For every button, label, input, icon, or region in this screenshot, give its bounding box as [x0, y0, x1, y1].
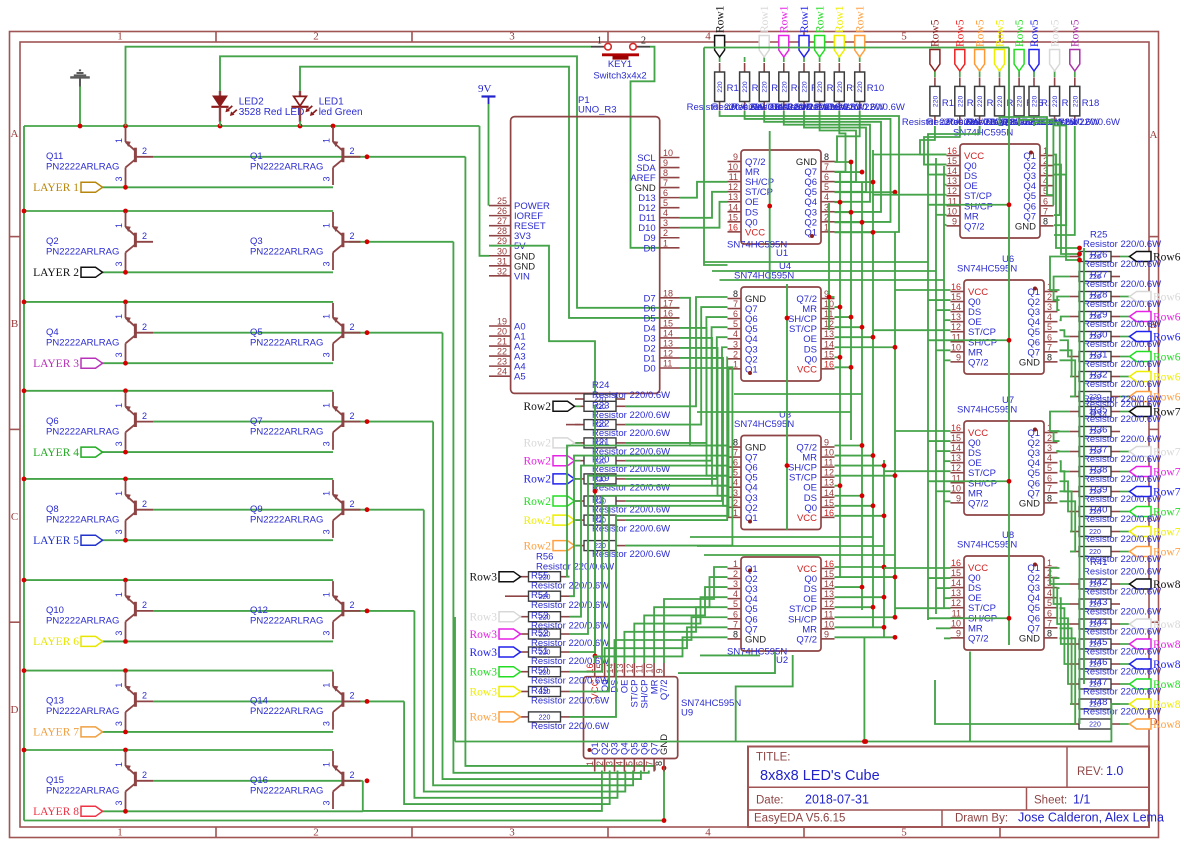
- svg-text:2: 2: [350, 146, 355, 156]
- svg-text:Resistor 220/0.6W: Resistor 220/0.6W: [1083, 494, 1161, 505]
- svg-text:9: 9: [663, 158, 668, 168]
- svg-text:8: 8: [1047, 628, 1052, 638]
- resistor R9: [834, 63, 844, 111]
- svg-text:3: 3: [733, 339, 738, 349]
- wire base row 2: [349, 241, 453, 243]
- svg-text:2: 2: [142, 600, 147, 610]
- wire LED2 net: [220, 56, 680, 307]
- svg-text:LAYER 6: LAYER 6: [33, 636, 79, 648]
- net flag Row2 (R19): [575, 478, 581, 480]
- bus row U3-U2: [690, 536, 873, 538]
- net flag Row3 (R52): [470, 629, 521, 641]
- svg-text:13: 13: [728, 192, 738, 202]
- svg-text:2: 2: [142, 322, 147, 332]
- svg-text:14: 14: [824, 579, 834, 589]
- svg-text:5: 5: [625, 761, 635, 766]
- svg-text:3: 3: [322, 721, 332, 726]
- resistor R37: [1070, 467, 1120, 477]
- svg-text:R1: R1: [727, 83, 739, 94]
- svg-text:SN74HC595N: SN74HC595N: [734, 419, 794, 430]
- svg-text:220: 220: [762, 81, 769, 93]
- svg-text:1: 1: [322, 403, 332, 408]
- wire base row 6: [153, 610, 414, 612]
- svg-text:9: 9: [655, 668, 665, 673]
- wire base1 to U9 pin: [465, 157, 655, 771]
- svg-text:2: 2: [350, 322, 355, 332]
- wires U4 outputs to channel: [829, 296, 835, 298]
- svg-text:3: 3: [114, 261, 124, 266]
- node rail1 junctions: [123, 124, 128, 129]
- net flag Row7: [1120, 471, 1130, 473]
- net flag Row6: [1120, 256, 1130, 258]
- svg-text:2: 2: [142, 499, 147, 509]
- svg-text:9: 9: [956, 493, 961, 503]
- svg-text:Q11: Q11: [46, 151, 63, 162]
- svg-text:10: 10: [951, 618, 961, 628]
- ground: [70, 70, 90, 86]
- resistor R13: [975, 77, 985, 125]
- net flag Row1 (R10): [859, 57, 861, 62]
- svg-text:7: 7: [663, 178, 668, 188]
- svg-text:2: 2: [733, 349, 738, 359]
- wire base row 7: [153, 700, 404, 702]
- net flag Row8: [1120, 683, 1130, 685]
- wire layer emitter 1: [100, 186, 333, 188]
- svg-text:12: 12: [947, 186, 957, 196]
- svg-text:1: 1: [585, 761, 595, 766]
- net flag Row7: [1120, 531, 1130, 533]
- svg-text:4: 4: [733, 329, 738, 339]
- svg-text:15: 15: [728, 212, 738, 222]
- svg-text:4: 4: [733, 589, 738, 599]
- svg-text:Q9: Q9: [250, 504, 263, 515]
- power flag 9V: [478, 83, 496, 104]
- svg-text:C: C: [11, 511, 18, 523]
- svg-text:14: 14: [824, 488, 834, 498]
- transistor Q15: [46, 751, 153, 809]
- net flag Row8: [1120, 623, 1130, 625]
- svg-text:11: 11: [824, 609, 833, 619]
- resistor R25: [1070, 252, 1120, 262]
- wire vertical through U4 and U3: [786, 284, 788, 530]
- svg-text:LAYER 8: LAYER 8: [33, 806, 79, 818]
- title block: [748, 747, 1164, 828]
- svg-text:Row2: Row2: [524, 515, 552, 527]
- shift register U8: [951, 530, 1058, 650]
- svg-text:12: 12: [824, 599, 834, 609]
- svg-text:7: 7: [1043, 206, 1048, 216]
- svg-text:12: 12: [728, 182, 738, 192]
- svg-text:4: 4: [705, 31, 711, 43]
- wire base row 3: [153, 332, 443, 334]
- svg-text:LED1: LED1: [319, 97, 344, 108]
- svg-text:1: 1: [114, 683, 124, 688]
- svg-text:3: 3: [322, 261, 332, 266]
- svg-text:Resistor 220/0.6W: Resistor 220/0.6W: [1083, 359, 1161, 370]
- resistor R12: [955, 77, 965, 125]
- net flag Row6: [1120, 376, 1130, 378]
- net flag Row5 (R16): [1033, 71, 1035, 77]
- svg-text:14: 14: [663, 328, 673, 338]
- svg-text:12: 12: [951, 598, 961, 608]
- svg-text:Resistor 220/0.6W: Resistor 220/0.6W: [1083, 534, 1161, 545]
- svg-text:2: 2: [595, 761, 605, 766]
- svg-text:3: 3: [733, 579, 738, 589]
- svg-text:PN2222ARLRAG: PN2222ARLRAG: [250, 426, 323, 437]
- resistor R2x: [575, 541, 625, 551]
- svg-text:10: 10: [824, 619, 834, 629]
- svg-text:6: 6: [1047, 608, 1052, 618]
- resistor R29: [1070, 332, 1120, 342]
- svg-text:D0: D0: [644, 364, 656, 375]
- net flag Row1 (R9): [838, 57, 840, 62]
- svg-text:GND: GND: [659, 734, 670, 755]
- wire base row 1: [153, 156, 465, 158]
- svg-text:Row5: Row5: [955, 19, 967, 47]
- svg-text:15: 15: [824, 569, 834, 579]
- wires U3 outputs to channel: [835, 445, 863, 447]
- svg-text:Row1: Row1: [759, 5, 771, 33]
- resistor R24: [575, 394, 625, 404]
- svg-text:Q7/2: Q7/2: [968, 498, 989, 509]
- svg-text:3528 Red LED: 3528 Red LED: [239, 107, 305, 118]
- transistor Q9: [250, 480, 361, 538]
- net flag Row6: [1120, 336, 1130, 338]
- wire layer rail 4: [24, 390, 333, 392]
- wire 5V down to U9 VCC: [594, 405, 596, 663]
- wire layer rail 7: [24, 670, 333, 672]
- svg-text:3: 3: [509, 827, 515, 839]
- net flag Row7: [1120, 511, 1130, 513]
- net flag Row5 (R14): [999, 71, 1001, 77]
- svg-text:3: 3: [114, 441, 124, 446]
- svg-text:Row3: Row3: [470, 647, 498, 659]
- svg-text:9V: 9V: [478, 83, 492, 95]
- wire channel2 bundle: [828, 203, 830, 330]
- svg-text:27: 27: [497, 216, 507, 226]
- svg-text:Q15: Q15: [46, 775, 64, 786]
- svg-text:Q16: Q16: [250, 775, 268, 786]
- wire layer rail 5: [24, 478, 333, 480]
- shift register U2: [727, 557, 835, 666]
- svg-text:Row8: Row8: [1153, 719, 1181, 731]
- svg-text:Resistor 220/0.6W: Resistor 220/0.6W: [531, 600, 609, 611]
- svg-text:LAYER 2: LAYER 2: [33, 267, 79, 279]
- svg-text:10: 10: [951, 483, 961, 493]
- resistor R53: [520, 612, 570, 622]
- svg-text:3: 3: [322, 441, 332, 446]
- net flag Row6: [1120, 316, 1130, 318]
- svg-text:16: 16: [947, 146, 957, 156]
- svg-text:220: 220: [742, 81, 749, 93]
- svg-text:1: 1: [733, 508, 738, 518]
- transistor Q6: [46, 392, 153, 450]
- svg-text:25: 25: [497, 196, 507, 206]
- svg-text:Resistor 220/0.6W: Resistor 220/0.6W: [1083, 279, 1161, 290]
- svg-text:7: 7: [1047, 342, 1052, 352]
- svg-text:Q13: Q13: [46, 696, 64, 707]
- resistor R20: [575, 456, 625, 466]
- svg-text:15: 15: [951, 433, 961, 443]
- svg-text:7: 7: [824, 162, 829, 172]
- svg-text:4: 4: [733, 478, 738, 488]
- svg-text:11: 11: [663, 359, 672, 369]
- svg-text:Q7/2: Q7/2: [964, 221, 985, 232]
- svg-text:Row2: Row2: [524, 438, 552, 450]
- resistor R54: [520, 591, 570, 601]
- resistor R11: [930, 77, 940, 125]
- svg-text:11: 11: [729, 172, 738, 182]
- svg-text:PN2222ARLRAG: PN2222ARLRAG: [250, 786, 323, 797]
- wires U2 outputs to channel: [835, 566, 885, 568]
- wires U6 to Row6 resistors: [1050, 257, 1070, 291]
- net flag Row2 (R23): [575, 405, 581, 407]
- net flag LAYER 7: [33, 727, 102, 739]
- svg-text:Row1: Row1: [814, 5, 826, 33]
- wire layer emitter 5: [100, 539, 333, 541]
- svg-text:Row1: Row1: [834, 5, 846, 33]
- svg-text:Resistor 220/0.6W: Resistor 220/0.6W: [1083, 239, 1161, 250]
- svg-text:220: 220: [817, 81, 824, 93]
- svg-text:21: 21: [497, 337, 507, 347]
- shift register U7: [951, 395, 1058, 515]
- wire U8 bottom drop: [969, 652, 971, 742]
- svg-text:6: 6: [663, 188, 668, 198]
- net flag Row5 (R17): [1054, 71, 1056, 77]
- svg-text:D: D: [11, 704, 19, 716]
- svg-text:5: 5: [1047, 322, 1052, 332]
- svg-text:1: 1: [114, 223, 124, 228]
- svg-text:Resistor 220/0.6W: Resistor 220/0.6W: [1083, 434, 1161, 445]
- wire below U2 a: [678, 652, 775, 674]
- svg-text:1: 1: [322, 592, 332, 597]
- svg-text:1: 1: [322, 683, 332, 688]
- svg-text:2: 2: [350, 231, 355, 241]
- svg-text:1: 1: [114, 762, 124, 767]
- svg-text:7: 7: [1047, 618, 1052, 628]
- svg-text:1.0: 1.0: [1106, 764, 1123, 778]
- svg-text:6: 6: [1047, 473, 1052, 483]
- svg-text:Resistor 220/0.6W: Resistor 220/0.6W: [1083, 394, 1161, 405]
- svg-text:LED2: LED2: [239, 97, 264, 108]
- wire rail1 to switch: [126, 47, 592, 126]
- net flag Row2 (R21): [575, 442, 581, 444]
- svg-text:7: 7: [1047, 483, 1052, 493]
- net flag Row5 (R11): [934, 71, 936, 77]
- resistor R19: [575, 474, 625, 484]
- svg-text:20: 20: [497, 327, 507, 337]
- svg-text:10: 10: [947, 206, 957, 216]
- shift register U9: [584, 663, 742, 772]
- svg-text:31: 31: [497, 256, 507, 266]
- svg-text:13: 13: [951, 453, 961, 463]
- net flag Row8: [1120, 663, 1130, 665]
- svg-text:Row1: Row1: [855, 5, 867, 33]
- svg-text:15: 15: [947, 156, 957, 166]
- resistor R4x: [520, 712, 570, 722]
- net flag Row3 (R53): [470, 612, 521, 624]
- svg-text:28: 28: [497, 226, 507, 236]
- net flag Row1 (R6): [783, 57, 785, 62]
- svg-text:VCC: VCC: [745, 227, 765, 238]
- svg-text:14: 14: [951, 578, 961, 588]
- wire R18 down to U5 GND row: [1054, 126, 1075, 235]
- svg-text:Q2: Q2: [46, 236, 59, 247]
- wire U9 gnd to bottom: [662, 766, 667, 771]
- resistor R23: [575, 401, 625, 411]
- svg-text:VIN: VIN: [514, 271, 530, 282]
- wire left bus drop: [454, 617, 456, 742]
- svg-text:Q7/2: Q7/2: [796, 634, 817, 645]
- svg-text:U1: U1: [776, 248, 788, 259]
- svg-text:2: 2: [313, 827, 319, 839]
- wire base7 to U9 pin: [404, 701, 610, 804]
- svg-text:13: 13: [824, 329, 834, 339]
- wire base6 to U9 pin: [414, 611, 617, 798]
- svg-text:220: 220: [1032, 96, 1039, 108]
- svg-text:8: 8: [733, 438, 738, 448]
- svg-text:Row5: Row5: [994, 19, 1006, 47]
- svg-text:PN2222ARLRAG: PN2222ARLRAG: [46, 514, 119, 525]
- bus row U1-U4: [704, 261, 928, 263]
- svg-text:6: 6: [824, 172, 829, 182]
- resistor R51: [520, 647, 570, 657]
- svg-text:8x8x8 LED's Cube: 8x8x8 LED's Cube: [760, 768, 880, 784]
- svg-text:Q5: Q5: [250, 327, 263, 338]
- resistor R43: [1070, 619, 1120, 629]
- resistor R42: [1070, 599, 1120, 609]
- wires U2 inputs to U9 top pins: [664, 567, 728, 663]
- svg-text:15: 15: [824, 349, 834, 359]
- wire layer emitter 8: [100, 810, 363, 812]
- resistor R31: [1070, 372, 1120, 382]
- node rail8 junctions: [22, 748, 27, 753]
- net flag Row8: [1120, 723, 1130, 725]
- net flag Row2 (R2): [575, 519, 581, 521]
- svg-text:10: 10: [663, 148, 673, 158]
- svg-text:3: 3: [1047, 443, 1052, 453]
- net flag LAYER 8: [33, 806, 102, 818]
- resistor R52: [520, 629, 570, 639]
- svg-text:Q12: Q12: [250, 605, 268, 616]
- resistor R1: [715, 63, 725, 111]
- transistor Q5: [250, 303, 361, 361]
- svg-text:13: 13: [824, 478, 834, 488]
- wires U8 to Row8 resistors: [1050, 568, 1070, 584]
- svg-text:R10: R10: [867, 83, 884, 94]
- resistor R17: [1050, 77, 1060, 125]
- svg-text:Resistor 220/0.6W: Resistor 220/0.6W: [1083, 319, 1161, 330]
- svg-text:Resistor 220/0.6W: Resistor 220/0.6W: [1083, 627, 1161, 638]
- resistor R55: [520, 572, 570, 582]
- svg-text:Resistor 220/0.6W: Resistor 220/0.6W: [1083, 687, 1161, 698]
- svg-text:24: 24: [497, 367, 507, 377]
- net flag Row6: [1120, 296, 1130, 298]
- svg-text:3: 3: [114, 352, 124, 357]
- svg-text:PN2222ARLRAG: PN2222ARLRAG: [250, 162, 323, 173]
- svg-text:15: 15: [663, 318, 673, 328]
- svg-text:2: 2: [733, 569, 738, 579]
- svg-text:23: 23: [497, 357, 507, 367]
- svg-text:PN2222ARLRAG: PN2222ARLRAG: [250, 514, 323, 525]
- svg-text:GND: GND: [1019, 633, 1040, 644]
- wires channel to U8 inputs: [884, 567, 951, 569]
- svg-text:1: 1: [114, 491, 124, 496]
- svg-text:Resistor 220/0.6W: Resistor 220/0.6W: [592, 524, 670, 535]
- svg-text:A: A: [11, 128, 19, 140]
- svg-text:220: 220: [1072, 96, 1079, 108]
- wire layer emitter 7: [100, 731, 333, 733]
- svg-text:15: 15: [951, 568, 961, 578]
- wire to last Row8 resistor: [935, 680, 1070, 724]
- svg-text:22: 22: [497, 347, 507, 357]
- svg-text:16: 16: [728, 222, 738, 232]
- resistor R: [1070, 547, 1120, 557]
- resistor R38: [1070, 487, 1120, 497]
- transistor Q4: [46, 303, 153, 361]
- svg-text:10: 10: [728, 162, 738, 172]
- wire base2 to U9 pin: [453, 242, 648, 773]
- svg-text:3: 3: [114, 800, 124, 805]
- svg-text:Resistor 220/0.6W: Resistor 220/0.6W: [1083, 607, 1161, 618]
- svg-text:Row3: Row3: [470, 686, 498, 698]
- resistor R26: [1070, 272, 1120, 282]
- svg-text:Switch3x4x2: Switch3x4x2: [593, 71, 646, 82]
- resistor R8: [815, 63, 825, 111]
- svg-text:16: 16: [951, 423, 961, 433]
- svg-text:3: 3: [1047, 302, 1052, 312]
- svg-text:4: 4: [615, 761, 625, 766]
- svg-text:Row5: Row5: [1014, 19, 1026, 47]
- transistor Q13: [46, 672, 153, 730]
- wire ground to rail1: [79, 87, 81, 127]
- wire base5 to U9 pin: [424, 510, 626, 792]
- resistor R28: [1070, 312, 1120, 322]
- svg-text:14: 14: [951, 302, 961, 312]
- connector P1 UNO_R3: [489, 95, 680, 393]
- wires channel to U5 inputs: [873, 154, 947, 156]
- wire rail1 to UNO gnd pin30: [480, 126, 490, 256]
- svg-text:220: 220: [857, 81, 864, 93]
- net flag Row3 (7): [470, 712, 521, 724]
- node rail4 junctions: [22, 388, 27, 393]
- svg-text:Resistor 220/0.6W: Resistor 220/0.6W: [592, 482, 670, 493]
- transistor Q12: [250, 581, 361, 639]
- wire layer rail 8: [24, 749, 333, 751]
- transistor Q1: [250, 127, 361, 185]
- svg-text:Q7/2: Q7/2: [968, 633, 989, 644]
- svg-text:15: 15: [824, 498, 834, 508]
- svg-text:Resistor 220/0.6W: Resistor 220/0.6W: [1083, 647, 1161, 658]
- wire channel1 bundle: [680, 182, 728, 198]
- svg-text:3: 3: [322, 176, 332, 181]
- wire channel1 lower bundle: [680, 298, 728, 446]
- wire layer rail 6: [24, 579, 333, 581]
- svg-text:2: 2: [1047, 292, 1052, 302]
- resistor R7: [799, 63, 809, 111]
- svg-text:2: 2: [350, 411, 355, 421]
- svg-text:3: 3: [605, 761, 615, 766]
- svg-text:3: 3: [114, 529, 124, 534]
- svg-text:Resistor 220/0.6W: Resistor 220/0.6W: [592, 549, 670, 560]
- svg-text:VCC: VCC: [797, 364, 817, 375]
- net flag LAYER 2: [33, 267, 102, 279]
- svg-text:3: 3: [322, 352, 332, 357]
- wires R1-R10 to U1: [720, 111, 899, 232]
- svg-text:220: 220: [957, 96, 964, 108]
- net flag Row2 (R20): [575, 460, 581, 462]
- resistor R21: [575, 438, 625, 448]
